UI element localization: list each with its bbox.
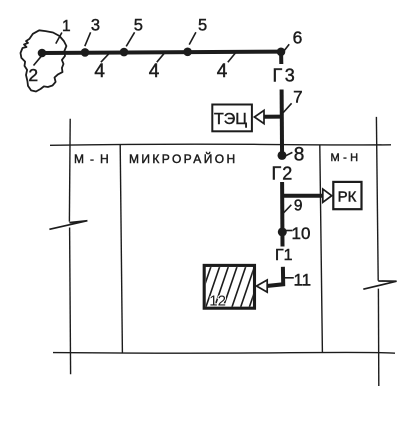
svg-text:6: 6 [293,28,303,48]
svg-text:Г3: Г3 [273,66,298,86]
node 2 (source point) [38,49,47,58]
node 3 [81,48,90,57]
leader line for label 1 [56,33,62,44]
РК box (district boiler) [333,182,361,209]
svg-text:9: 9 [294,198,303,215]
main line riser segment Г1 to consumer 12 [267,267,284,286]
street grid vertical line 1 (lower part) [70,228,71,375]
leader line for label 11 [285,277,294,279]
leader line for label 3 [85,32,91,46]
svg-text:12: 12 [209,292,226,309]
leader line for label 4b [157,52,166,63]
main line riser segment Г2 to node 10 [280,182,284,247]
street grid vertical line 3 [320,145,323,353]
street grid horizontal line top [50,144,391,145]
leader line for label 7 [283,103,291,112]
svg-text:10: 10 [292,224,311,243]
leader line for label 8 [285,152,293,156]
svg-text:МИКРОРАЙОН: МИКРОРАЙОН [129,151,238,166]
node 8 [278,151,287,160]
svg-text:5: 5 [134,17,143,35]
svg-text:7: 7 [293,88,302,107]
node 5b [183,48,192,57]
ТЭЦ box (heat source) [212,105,252,132]
svg-text:РК: РК [338,189,357,206]
arrowhead into consumer 12 [257,280,268,292]
svg-text:4: 4 [217,61,228,82]
leader line for label 6 [282,44,289,53]
svg-text:2: 2 [28,65,38,85]
svg-text:5: 5 [198,17,207,35]
svg-text:3: 3 [91,17,100,35]
street grid vertical line 4 (upper part) [376,117,378,281]
leader line for label 4c [228,52,237,63]
leader line for label 2 [34,56,42,65]
street grid horizontal line bottom [53,351,395,354]
svg-text:8: 8 [294,145,305,166]
node 10 [278,227,287,236]
svg-text:1: 1 [62,18,71,35]
leader line for label 10 [285,230,293,232]
main line trunk (horizontal) [42,52,281,53]
svg-text:11: 11 [293,271,311,290]
consumer block 12 (hatched box) [197,265,273,309]
street grid vertical line 2 [120,145,122,353]
svg-text:Г2: Г2 [272,164,294,184]
arrowhead into РК [323,189,332,202]
branch to РК [282,194,323,198]
heat source service area blob (node 2 territory) [21,30,67,91]
break mark on vertical line 1 [49,221,87,230]
arrowhead into ТЭЦ [254,110,264,123]
svg-text:М-Н: М-Н [74,152,115,166]
node 6 (corner) [277,48,286,57]
svg-text:ТЭЦ: ТЭЦ [214,111,247,128]
branch to ТЭЦ [264,115,282,119]
node 5a [120,48,129,57]
svg-text:Г1: Г1 [275,247,293,264]
leader line for label 5a [126,32,134,46]
main line riser segment Г3 to node 8 [280,90,285,160]
street grid vertical line 4 (lower part) [377,289,379,386]
leader line for label 5b [189,32,196,44]
leader line for label 4a [101,52,111,63]
street grid vertical line 1 (upper part) [68,119,71,222]
break mark on vertical line 4 [363,281,396,289]
svg-text:4: 4 [94,61,105,82]
svg-text:4: 4 [149,61,160,82]
main line riser segment below node 6 [279,52,283,64]
svg-text:М-Н: М-Н [331,152,362,164]
leader line for label 9 [283,205,291,214]
